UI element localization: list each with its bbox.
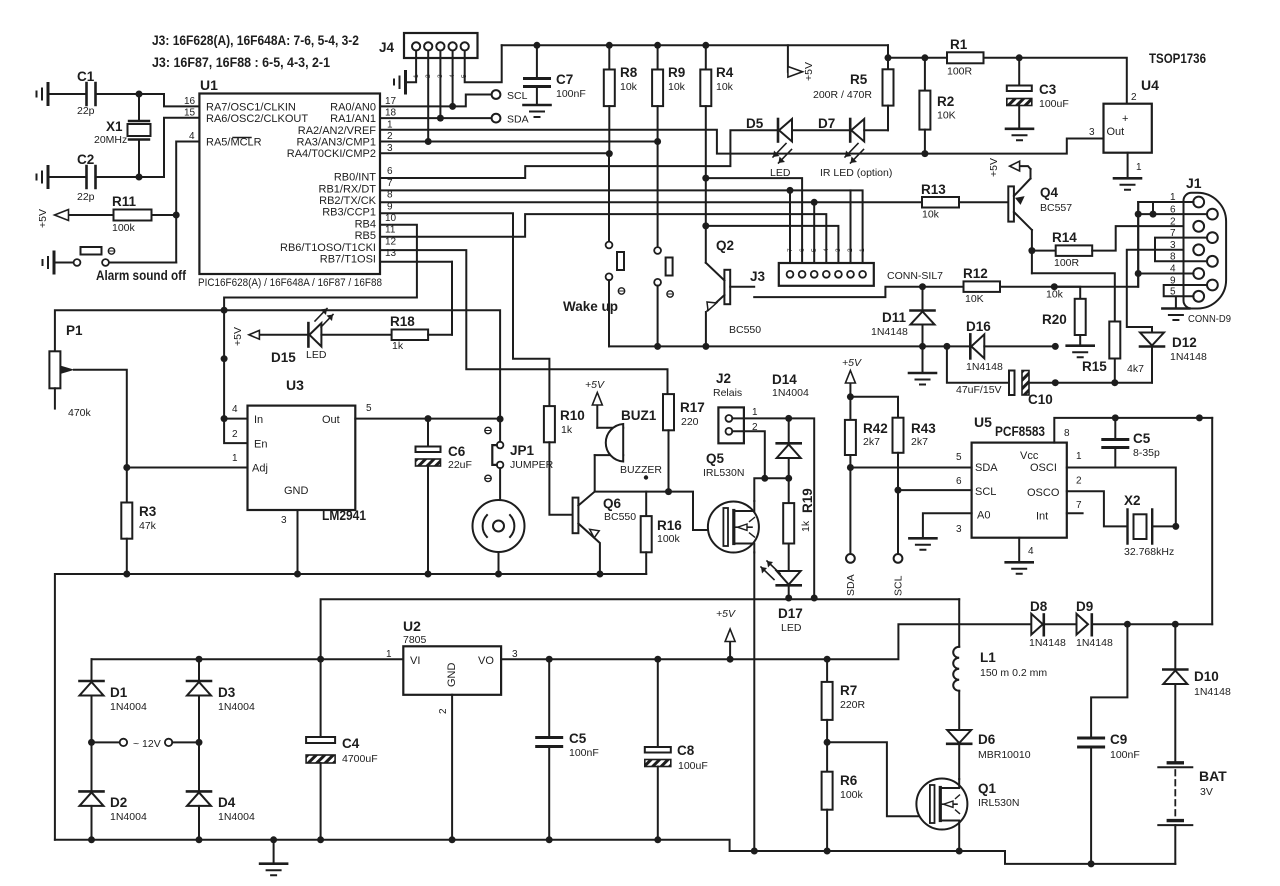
svg-text:+5V: +5V (803, 62, 815, 81)
node Q2 emitter junction (702, 343, 709, 350)
resistor R14 (1032, 250, 1056, 252)
led D5 (777, 119, 780, 142)
svg-text:R9: R9 (668, 65, 685, 80)
svg-text:2: 2 (1131, 92, 1137, 103)
svg-text:D6: D6 (978, 732, 996, 747)
wire RB0 pin6 to LED D5 (380, 130, 778, 178)
node J1 pin6 bus junction (1135, 211, 1142, 218)
label J1 pin numbers (1170, 192, 1176, 298)
node J2 pin2 junction (761, 475, 768, 482)
svg-text:D12: D12 (1172, 335, 1197, 350)
svg-text:6: 6 (387, 166, 393, 177)
svg-text:1k: 1k (561, 424, 573, 436)
ground (U5) (1006, 561, 1033, 564)
svg-text:R6: R6 (840, 773, 858, 788)
svg-text:6: 6 (1170, 205, 1176, 216)
svg-text:3: 3 (387, 143, 393, 154)
svg-text:SDA: SDA (507, 114, 529, 126)
node RB1/J3 pin7 junction (787, 187, 794, 194)
svg-text:1k: 1k (392, 340, 404, 352)
svg-text:220R: 220R (840, 699, 866, 711)
node D16 left junction (943, 343, 950, 350)
capacitor C3 (1018, 58, 1020, 85)
node C5 100n top junction (546, 656, 553, 663)
svg-text:220: 220 (681, 416, 699, 428)
svg-text:3V: 3V (1200, 786, 1213, 798)
svg-text:150 m 0.2 mm: 150 m 0.2 mm (980, 667, 1047, 679)
terminal ~12V right (165, 739, 172, 746)
svg-text:10k: 10k (716, 81, 734, 93)
svg-text:D1: D1 (110, 685, 128, 700)
node R7/R6 junction (824, 739, 831, 746)
wire RB5 pin11 to J3 pin4 (380, 214, 826, 268)
svg-text:RA4/T0CKI/CMP2: RA4/T0CKI/CMP2 (287, 148, 376, 160)
node D11 junction (919, 283, 926, 290)
svg-text:10: 10 (385, 213, 397, 224)
node C3 top junction (1016, 54, 1023, 61)
svg-text:PIC16F628(A) / 16F648A / 16F87: PIC16F628(A) / 16F648A / 16F87 / 16F88 (198, 277, 382, 289)
svg-text:J3: 16F628(A), 16F648A: 7-6, 5: J3: 16F628(A), 16F648A: 7-6, 5-4, 3-2 (152, 33, 359, 48)
wire RB4 pin10 to P1 line (224, 225, 417, 419)
svg-text:GND: GND (284, 485, 309, 497)
svg-text:U3: U3 (286, 377, 304, 393)
svg-text:R1: R1 (950, 37, 968, 52)
svg-text:18: 18 (385, 108, 397, 119)
svg-text:C6: C6 (448, 444, 466, 459)
wire J2 pin1 to supply rail (732, 418, 814, 598)
svg-text:4k7: 4k7 (1127, 363, 1144, 375)
node U2 GND junction (449, 836, 456, 843)
node C8 top junction (654, 656, 661, 663)
svg-text:C8: C8 (677, 743, 695, 758)
svg-text:R12: R12 (963, 266, 988, 281)
wire J4 pin2 down (427, 51, 429, 142)
mosfet Q5 IRL530N (708, 502, 759, 553)
diode D16 (947, 345, 970, 347)
node R7 top junction (824, 656, 831, 663)
svg-text:R42: R42 (863, 421, 888, 436)
svg-text:C2: C2 (77, 152, 94, 167)
wire U3 GND to rail (297, 510, 299, 574)
node D16 right junction (1052, 343, 1059, 350)
svg-text:2k7: 2k7 (863, 436, 880, 448)
diode D6 (947, 730, 971, 743)
svg-text:Q6: Q6 (603, 496, 622, 511)
node U3 In branch junction (221, 355, 228, 362)
power flag +5V (BUZ1) (596, 405, 598, 428)
power flag +5V (top rail) (787, 45, 789, 72)
svg-text:R11: R11 (112, 194, 137, 209)
connector J1 DB9 (1183, 193, 1226, 309)
svg-text:4: 4 (189, 131, 195, 142)
diode D9 (1077, 614, 1089, 635)
svg-text:R20: R20 (1042, 312, 1067, 327)
node D17 bottom junction (785, 595, 792, 602)
node C10/D16 junction (1052, 379, 1059, 386)
wire U3 In stub (224, 418, 247, 420)
diode D1 (91, 659, 93, 680)
wire RB7 pin13 to R18 (380, 262, 452, 335)
mosfet Q1 IRL530N (916, 779, 967, 830)
diode D12 (1140, 333, 1164, 346)
resistor R43 (850, 397, 898, 418)
svg-text:1: 1 (859, 248, 866, 252)
svg-text:Out: Out (1107, 126, 1125, 138)
svg-text:12: 12 (385, 236, 397, 247)
node R11/MCLR junction (173, 212, 180, 219)
node C6 top junction (425, 415, 432, 422)
node J4 pin2 junction (425, 138, 432, 145)
node RB2/J3 pin5 junction (811, 199, 818, 206)
resistor R13 (922, 197, 959, 208)
svg-text:U2: U2 (403, 618, 421, 634)
svg-text:BUZZER: BUZZER (620, 464, 662, 476)
svg-text:3: 3 (956, 524, 962, 535)
wire J4 pin1 to ground (407, 51, 416, 83)
ground (left of C1) (47, 84, 50, 105)
node J1 pin4 bus junction (1135, 270, 1142, 277)
svg-text:22uF: 22uF (448, 459, 472, 471)
svg-text:1N4148: 1N4148 (966, 361, 1003, 373)
node U3 In junction (221, 415, 228, 422)
node C1/X1 junction (136, 91, 143, 98)
node C2/X1 junction (136, 174, 143, 181)
resistor R11 (114, 210, 152, 221)
svg-text:Vcc: Vcc (1020, 450, 1039, 462)
wire supply rail y598 (321, 599, 960, 659)
capacitor C5 100nF (548, 659, 550, 736)
svg-text:RA0/AN0: RA0/AN0 (330, 101, 376, 113)
svg-text:100nF: 100nF (556, 88, 586, 100)
ground (C7) (524, 104, 551, 107)
ic U5 PCF8583 box (972, 443, 1067, 538)
node D2 bottom junction (88, 836, 95, 843)
node sounder bottom junction (495, 571, 502, 578)
svg-text:X2: X2 (1124, 493, 1141, 508)
svg-text:1N4004: 1N4004 (218, 701, 255, 713)
node R19 top junction (785, 475, 792, 482)
resistor R17 (663, 394, 674, 430)
svg-text:C4: C4 (342, 736, 360, 751)
svg-text:D14: D14 (772, 372, 797, 387)
svg-text:J3: 16F87, 16F88 : 6-5, 4-3, 2: J3: 16F87, 16F88 : 6-5, 4-3, 2-1 (152, 55, 330, 70)
svg-text:2k7: 2k7 (911, 436, 928, 448)
svg-text:Q2: Q2 (716, 238, 734, 253)
terminal SDA (492, 114, 501, 123)
ic U2 7805 box (403, 646, 501, 695)
svg-text:SCL: SCL (507, 90, 528, 102)
svg-text:CONN-SIL7: CONN-SIL7 (887, 270, 943, 282)
svg-text:BC550: BC550 (729, 324, 761, 336)
svg-text:D11: D11 (882, 310, 907, 325)
svg-text:RB1/RX/DT: RB1/RX/DT (319, 183, 377, 195)
svg-text:En: En (254, 439, 267, 451)
wire J1 bus pin6 to pin4 to R12 line (1137, 202, 1139, 287)
svg-text:4: 4 (1028, 546, 1034, 557)
svg-text:1N4148: 1N4148 (1076, 637, 1113, 649)
wire U5 GND pin4 (1018, 538, 1020, 562)
svg-text:7: 7 (387, 178, 393, 189)
diode D14 (788, 418, 790, 442)
node Q1 source junction (956, 848, 963, 855)
svg-text:1k: 1k (800, 520, 812, 532)
svg-text:15: 15 (184, 108, 196, 119)
wire RA0 pin17 to SCL (380, 95, 492, 107)
node R2 bottom junction (921, 150, 928, 157)
svg-text:2: 2 (1076, 476, 1082, 487)
svg-text:5: 5 (811, 248, 818, 252)
led D15 arrows (315, 309, 333, 328)
svg-text:RB2/TX/CK: RB2/TX/CK (319, 195, 377, 207)
svg-text:R15: R15 (1082, 359, 1107, 374)
svg-text:1N4004: 1N4004 (772, 387, 809, 399)
wire MCLR to button (176, 142, 199, 263)
wire bridge + line to U2 VI (92, 658, 404, 660)
svg-text:U1: U1 (200, 77, 218, 93)
switch Alarm sound off (54, 262, 74, 264)
node R17 bottom junction (665, 488, 672, 495)
wire U5 Int stub pin7 (1067, 512, 1083, 514)
svg-text:U4: U4 (1141, 77, 1159, 93)
svg-text:+5V: +5V (37, 209, 49, 228)
resistor R20 (1054, 287, 1080, 299)
svg-text:8: 8 (1170, 252, 1176, 263)
wire U5 SDA (850, 467, 971, 469)
diode D2 (91, 742, 93, 791)
svg-text:GND: GND (446, 663, 458, 688)
svg-text:1N4148: 1N4148 (871, 326, 908, 338)
svg-text:OSCO: OSCO (1027, 487, 1060, 499)
wire Q6 collector line to Q5 gate (595, 492, 725, 530)
wire U5 OSCI pin1 (1067, 468, 1176, 527)
led D15 (307, 323, 310, 346)
svg-text:5: 5 (1170, 287, 1176, 298)
ground (J1) (1162, 307, 1189, 310)
led D7 arrows (845, 144, 864, 164)
label J4 pin names (tiny) (413, 74, 468, 78)
svg-text:7: 7 (1076, 500, 1082, 511)
resistor R18 (392, 330, 429, 341)
svg-text:7: 7 (787, 248, 794, 252)
node U3 GND junction (294, 571, 301, 578)
switch wake-up S1 (608, 154, 610, 242)
svg-text:D7: D7 (818, 116, 835, 131)
svg-text:RB4: RB4 (355, 218, 376, 230)
wire U3 Out line (355, 418, 500, 420)
crystal X1 (138, 94, 140, 121)
overline on MCLR (233, 137, 251, 139)
svg-text:R8: R8 (620, 65, 638, 80)
svg-text:X1: X1 (106, 119, 123, 134)
node C8 bottom junction (654, 836, 661, 843)
resistor R9 (657, 45, 659, 69)
svg-text:VO: VO (478, 655, 494, 667)
node right rail junction (1196, 414, 1203, 421)
svg-text:SDA: SDA (975, 462, 998, 474)
resistor R2 (924, 58, 926, 91)
node R42 top junction (847, 393, 854, 400)
ground (D11) (922, 346, 924, 372)
wire R4 node down to Q2 collector (705, 178, 707, 263)
svg-text:P1: P1 (66, 323, 83, 338)
svg-text:Relais: Relais (713, 387, 742, 399)
capacitor C8 (657, 659, 659, 746)
transistor Q2 BC550 (724, 270, 730, 304)
svg-text:6: 6 (799, 248, 806, 252)
node R3 bottom junction (123, 571, 130, 578)
wire J1 pin6 stub (1138, 213, 1207, 215)
svg-text:Q4: Q4 (1040, 185, 1059, 200)
svg-text:22p: 22p (77, 191, 95, 203)
svg-text:R17: R17 (680, 400, 705, 415)
svg-text:Q5: Q5 (706, 451, 725, 466)
svg-text:10K: 10K (937, 110, 956, 122)
svg-text:D16: D16 (966, 319, 991, 334)
resistor R16 (645, 492, 647, 516)
wire J3 pin6 from R4 node (706, 178, 802, 268)
svg-text:4: 4 (823, 248, 830, 252)
svg-text:Int: Int (1036, 511, 1048, 523)
wire RA3 pin2 to R9 column (380, 141, 658, 143)
svg-text:D8: D8 (1030, 599, 1048, 614)
terminal SCL (U5) (894, 554, 903, 563)
wire P1 top / H6 line to JP1 (55, 310, 500, 419)
svg-text:2: 2 (438, 708, 449, 714)
svg-text:10k: 10k (1046, 289, 1064, 301)
wire ground rail bottom left (55, 840, 1175, 864)
svg-text:R43: R43 (911, 421, 936, 436)
svg-text:R5: R5 (850, 72, 868, 87)
wire Adj to U3 (127, 467, 248, 469)
capacitor C7 (536, 45, 538, 77)
svg-text:100k: 100k (112, 222, 136, 234)
svg-text:1N4148: 1N4148 (1029, 637, 1066, 649)
led D17 (777, 571, 801, 585)
wire Q4 collector to R14 (1031, 230, 1033, 273)
node J1 pin6 stub junction (1150, 211, 1157, 218)
buzzer BUZ1 (595, 428, 624, 455)
resistor R3 (126, 468, 128, 503)
node AC2 junction (196, 739, 203, 746)
svg-text:100R: 100R (947, 66, 973, 78)
inductor L1 (958, 599, 960, 647)
led D5 arrows (773, 144, 792, 164)
svg-text:J1: J1 (1186, 175, 1202, 191)
ground (C3) (1006, 128, 1033, 131)
resistor R19 (788, 478, 790, 503)
node C9 bottom junction (1088, 860, 1095, 867)
node RB4/P1 line junction (221, 307, 228, 314)
svg-text:2: 2 (232, 429, 238, 440)
wire U5 Vcc pin8 (1054, 418, 1212, 443)
svg-text:SCL: SCL (975, 486, 996, 498)
svg-text:10k: 10k (668, 81, 686, 93)
ground (J4) (404, 72, 407, 94)
svg-text:R16: R16 (657, 518, 682, 533)
svg-text:MBR10010: MBR10010 (978, 749, 1031, 761)
diode D8 (1031, 614, 1043, 635)
svg-text:IR LED (option): IR LED (option) (820, 167, 892, 179)
resistor R6 (826, 742, 828, 771)
svg-text:~ 12V: ~ 12V (133, 738, 161, 750)
node C7 junction (533, 42, 540, 49)
node JP1 top junction (497, 416, 504, 423)
svg-text:47k: 47k (139, 520, 157, 532)
svg-text:BUZ1: BUZ1 (621, 408, 657, 423)
wire switch ground rail (609, 345, 947, 347)
wire J4 pin3 down (439, 51, 441, 119)
power flag +5V (Q4) (1020, 166, 1031, 169)
node D4 bottom junction (196, 836, 203, 843)
svg-text:RA6/OSC2/CLKOUT: RA6/OSC2/CLKOUT (206, 113, 308, 125)
jumper JP1 (499, 419, 501, 441)
svg-text:1N4148: 1N4148 (1194, 686, 1231, 698)
svg-text:JUMPER: JUMPER (510, 459, 554, 471)
svg-text:1: 1 (1170, 192, 1176, 203)
node R2 top junction (921, 54, 928, 61)
svg-text:C5: C5 (569, 731, 587, 746)
wire RB1 pin7 to J3 (380, 190, 863, 268)
svg-text:1N4004: 1N4004 (110, 701, 147, 713)
svg-text:2: 2 (847, 248, 854, 252)
svg-text:3: 3 (1170, 240, 1176, 251)
svg-text:JP1: JP1 (510, 443, 535, 458)
wire U2 VO +5V rail (501, 624, 1032, 659)
svg-text:1: 1 (1136, 162, 1142, 173)
svg-text:100k: 100k (840, 789, 864, 801)
wire ground rail mid (55, 574, 646, 840)
svg-text:+5V: +5V (716, 608, 736, 620)
svg-text:J3: J3 (750, 269, 766, 284)
switch wake-up S2 (657, 142, 659, 248)
svg-text:1: 1 (386, 649, 392, 660)
wire +5V top rail (502, 44, 888, 46)
wire J1 pin7-pin8 bracket (1155, 238, 1207, 262)
node R4 junction (702, 42, 709, 49)
connector J2 Relais (718, 407, 744, 443)
power flag +5V (D15) (259, 334, 308, 336)
resistor R1 (947, 52, 984, 63)
svg-text:IRL530N: IRL530N (978, 797, 1019, 809)
node +5V flag junction (727, 656, 734, 663)
svg-text:+5V: +5V (585, 379, 605, 391)
svg-text:100k: 100k (657, 533, 681, 545)
svg-text:R2: R2 (937, 94, 954, 109)
label J3 pin numbers (tiny) (787, 248, 866, 252)
svg-text:BC550: BC550 (604, 511, 636, 523)
svg-text:4: 4 (232, 404, 238, 415)
node C6 bottom junction (425, 571, 432, 578)
wire rail corner to R1 line (888, 45, 1127, 103)
svg-text:3: 3 (281, 515, 287, 526)
svg-text:+5V: +5V (232, 327, 244, 346)
svg-text:1N4148: 1N4148 (1170, 351, 1207, 363)
svg-text:10k: 10k (620, 81, 638, 93)
resistor R15 (1109, 322, 1120, 359)
svg-text:R3: R3 (139, 504, 157, 519)
svg-text:C1: C1 (77, 69, 95, 84)
svg-text:RA2/AN2/VREF: RA2/AN2/VREF (298, 125, 377, 137)
svg-text:Out: Out (322, 414, 340, 426)
resistor R42 (849, 397, 851, 420)
svg-text:1N4004: 1N4004 (218, 811, 255, 823)
node J2 rail junction (811, 595, 818, 602)
wire U5 OSCO pin2 to X2 (1067, 491, 1128, 526)
svg-text:7805: 7805 (403, 634, 427, 646)
node Q4/R14 junction (1028, 247, 1035, 254)
node D10 branch junction (1172, 621, 1179, 628)
capacitor C5 trimmer (1114, 418, 1116, 438)
